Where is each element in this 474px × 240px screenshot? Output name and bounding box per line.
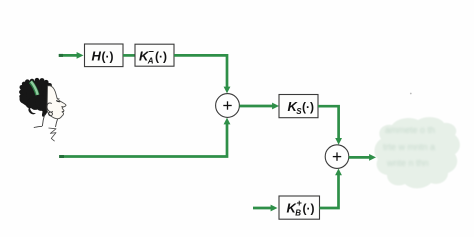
wire: S1 to block K_S: [240, 103, 280, 110]
hair scallop bumps: [19, 78, 53, 103]
svg-text:trte w mntn a: trte w mntn a: [383, 142, 435, 152]
svg-text:(·): (·): [102, 49, 114, 63]
face profile (skin): [47, 86, 66, 119]
wire: observer to summing junction S1 (lower feed): [59, 118, 230, 157]
summing junction S1: [216, 94, 240, 118]
svg-text:B: B: [295, 209, 301, 218]
svg-text:wnte n thn: wnte n thn: [386, 158, 429, 168]
summing junction S2: [325, 145, 349, 169]
svg-text:(·): (·): [302, 100, 314, 114]
collar zigzag: [49, 128, 57, 141]
hair curl below bun: [28, 107, 36, 115]
earring: [49, 112, 53, 116]
headband (green): [31, 82, 38, 95]
brow crease: [57, 98, 60, 99]
block H: [85, 44, 124, 67]
svg-text:A: A: [147, 57, 154, 66]
wire: H to K_A: [123, 54, 135, 57]
block K_B: [279, 196, 320, 219]
hair interior fill: [20, 83, 49, 109]
wire: input arrow to block K_B: [253, 205, 278, 212]
cloud (faded output region): [374, 117, 459, 188]
svg-text:(·): (·): [155, 49, 167, 63]
ear: [47, 103, 53, 112]
hair silhouette: [20, 80, 51, 117]
block K_S: [279, 95, 318, 118]
wire: K_A to summing junction S1: [174, 55, 230, 93]
wire: S2 output arrow to cloud: [349, 154, 376, 161]
face sketch (observer input): [19, 78, 66, 141]
svg-text:(·): (·): [303, 201, 315, 215]
wire: K_B to summing junction S2: [320, 169, 342, 209]
hair front puffs (over band): [36, 80, 52, 111]
wire: input arrow to block H: [59, 52, 84, 59]
eye (closed lash): [56, 101, 60, 102]
neck back line: [42, 115, 44, 127]
svg-text:ammete o th: ammete o th: [385, 125, 435, 135]
svg-text:+: +: [297, 198, 302, 208]
mouth line: [62, 111, 64, 113]
nostril: [62, 105, 64, 107]
svg-text:−: −: [149, 46, 154, 56]
svg-text:H: H: [92, 48, 102, 63]
neck front line: [56, 119, 58, 127]
block K_A: [135, 44, 174, 66]
shoulder mark: [34, 126, 42, 127]
wire: K_S to summing junction S2: [318, 106, 342, 145]
stray speck: [410, 93, 412, 95]
